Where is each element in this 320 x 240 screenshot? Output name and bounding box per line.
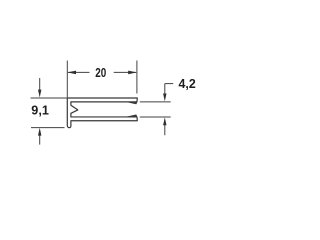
dim 4,2: upper arrowhead (down) (163, 94, 166, 102)
dim 4,2: lower extension line (140, 116, 171, 118)
dim 20: dimension line left segment (68, 71, 90, 73)
svg-text:20: 20 (95, 65, 106, 80)
dim 20: right arrowhead (128, 71, 137, 75)
dim 9,1: bottom arrowhead (up) (38, 128, 41, 136)
dim 9,1: top extension line (31, 97, 68, 99)
dim 9,1: bottom arrow shaft (39, 134, 41, 145)
dim 4,2: lower arrowhead (up) (163, 117, 166, 125)
svg-text:4,2: 4,2 (179, 76, 196, 91)
dim 4,2: leader vertical shaft (164, 84, 166, 94)
dim 20: right extension line (136, 61, 138, 94)
dim 9,1: top arrowhead (down) (38, 90, 41, 98)
dim 4,2: lower arrow shaft (164, 124, 166, 135)
dim 20: dimension line right segment (114, 71, 137, 73)
svg-text:9,1: 9,1 (31, 103, 49, 118)
upper prong barb ridge (127, 102, 138, 104)
dim 9,1: top arrow shaft (39, 78, 41, 91)
dim 4,2: upper extension line (140, 101, 171, 103)
dim 9,1: bottom extension line (31, 127, 65, 129)
dim 4,2: leader elbow horizontal (165, 83, 173, 85)
profile cross-section outline (67, 98, 137, 128)
dim 20: left extension line (66, 61, 68, 98)
dim 20: left arrowhead (68, 71, 77, 75)
lower prong barb ridge (127, 115, 138, 117)
